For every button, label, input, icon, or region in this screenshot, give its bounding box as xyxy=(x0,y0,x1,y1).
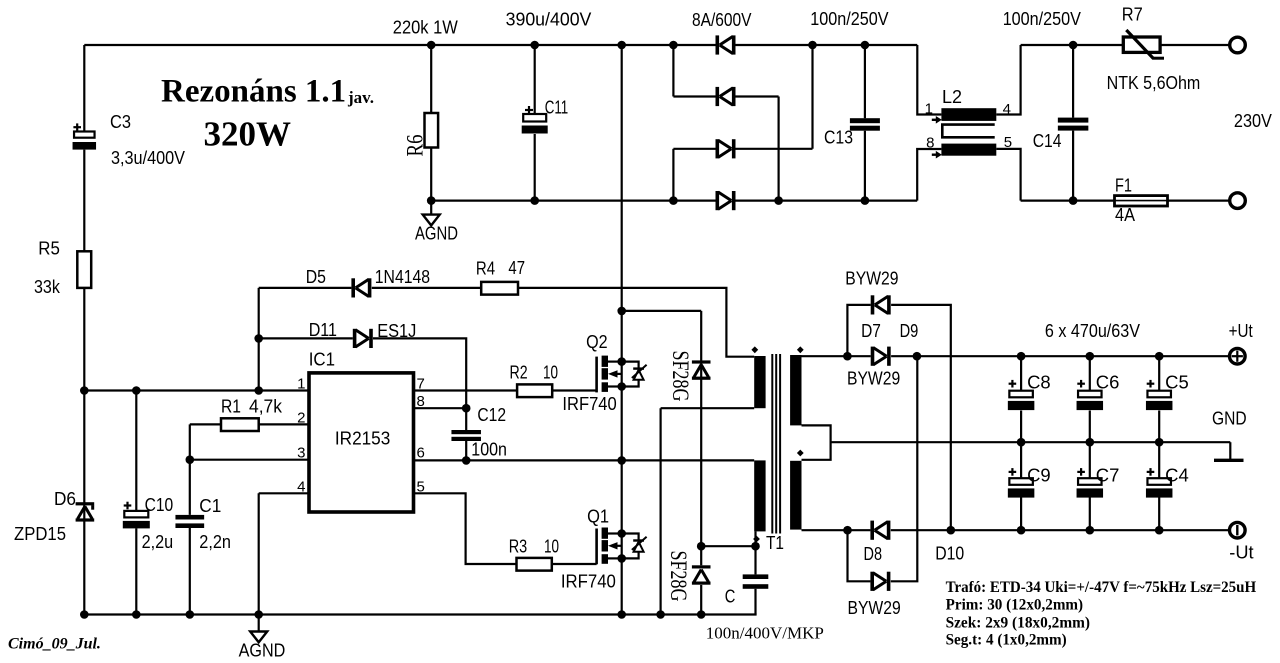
wire C11 bottom xyxy=(534,134,536,201)
transformer T1 secondary lower winding xyxy=(790,461,801,530)
svg-text:6 x 470u/63V: 6 x 470u/63V xyxy=(1045,321,1140,341)
terminal 230V neutral xyxy=(1230,193,1246,209)
svg-text:BYW29: BYW29 xyxy=(847,369,900,389)
svg-text:C10: C10 xyxy=(145,495,174,515)
wire top rail to C3 xyxy=(83,45,85,132)
svg-text:SF28G: SF28G xyxy=(668,351,693,402)
junction C1 / ground rail xyxy=(186,610,195,619)
wire SF28G vertical xyxy=(700,311,702,546)
svg-text:100n/400V/MKP: 100n/400V/MKP xyxy=(706,624,824,643)
wire T1 primary upper bottom row xyxy=(661,407,755,409)
wire SF28G bottom to ground rail xyxy=(700,585,702,615)
ground AGND near R6 xyxy=(423,201,440,226)
capacitor C4 xyxy=(1146,478,1173,497)
junction aux vertical / ground rail xyxy=(656,610,665,619)
wire main vertical to SF28G top xyxy=(622,310,702,312)
wire D5 to R4 xyxy=(372,287,481,289)
svg-text:2: 2 xyxy=(297,409,305,426)
wire C5 bottom xyxy=(1158,411,1160,443)
svg-text:R5: R5 xyxy=(38,239,60,259)
svg-text:F1: F1 xyxy=(1115,176,1132,196)
wire mid rail right of bridge diode D4 xyxy=(736,200,918,202)
svg-text:ZPD15: ZPD15 xyxy=(14,524,66,544)
wire pin 5 to R3 xyxy=(414,493,517,564)
bridge diode row 2 xyxy=(716,87,736,106)
diode SF28G bottom xyxy=(692,565,711,584)
wire top rail right of bridge diode D1 xyxy=(736,44,918,46)
fuse F1 xyxy=(1115,196,1168,206)
svg-text:C3: C3 xyxy=(110,112,131,132)
svg-text:10: 10 xyxy=(544,537,559,557)
junction right top rail / C14 xyxy=(1069,41,1078,50)
transformer T1 core xyxy=(772,354,780,534)
wire R6 top xyxy=(430,45,432,113)
svg-text:230V: 230V xyxy=(1234,111,1272,131)
junction top rail / R6 xyxy=(427,41,436,50)
junction top rail / C13 xyxy=(861,41,870,50)
inductor L2 winding top xyxy=(941,108,996,121)
wire C14 bottom xyxy=(1072,131,1074,201)
node Q2 drain junction xyxy=(617,357,626,366)
junction secondary bottom / D10 branch xyxy=(843,526,852,535)
wire D5/D11 left vertical xyxy=(258,288,260,391)
svg-text:NTK 5,6Ohm: NTK 5,6Ohm xyxy=(1107,73,1201,93)
junction Vcc row / C10 xyxy=(132,386,141,395)
svg-text:C14: C14 xyxy=(1033,131,1062,151)
wire pin 7 to R2 xyxy=(414,389,518,391)
junction -Ut rail / C9 xyxy=(1017,526,1026,535)
inductor L2 core xyxy=(942,125,994,138)
svg-text:4,7k: 4,7k xyxy=(249,397,283,417)
svg-text:220k 1W: 220k 1W xyxy=(393,18,458,38)
L2 polarity arrow pin 1 xyxy=(932,116,942,124)
svg-text:C1: C1 xyxy=(199,496,221,516)
wire bridge vertical to top rail xyxy=(811,45,813,149)
transformer T1 secondary upper winding xyxy=(790,355,801,425)
svg-text:Seg.t: 4 (1x0,2mm): Seg.t: 4 (1x0,2mm) xyxy=(946,631,1067,648)
svg-text:R1: R1 xyxy=(221,397,241,417)
wire C11 top xyxy=(534,45,536,114)
svg-text:R7: R7 xyxy=(1122,5,1143,25)
resistor R6 xyxy=(425,113,439,148)
op-amp IC1 IR2153 box xyxy=(309,373,414,512)
wire C8 bottom xyxy=(1020,411,1022,443)
junction pin8/D11/C12 xyxy=(462,404,471,413)
wire C7 top xyxy=(1089,442,1091,478)
svg-text:320W: 320W xyxy=(204,114,292,153)
wire R5 through D6 to bottom rail xyxy=(83,288,85,615)
svg-text:8: 8 xyxy=(926,135,934,152)
junction GND rail / C6 xyxy=(1086,438,1095,447)
wire bridge row 2 right xyxy=(736,95,779,97)
wire C8 top xyxy=(1020,356,1022,391)
capacitor C1 xyxy=(175,515,204,528)
wire C13 bottom xyxy=(864,131,866,201)
wire bridge row 3 right xyxy=(736,148,813,150)
diode D11 xyxy=(353,329,373,348)
junction pin3 row / C1 branch xyxy=(186,455,195,464)
junction main vertical / SF28G top branch xyxy=(617,307,626,316)
junction C10 / ground rail xyxy=(132,610,141,619)
svg-text:Trafó: ETD-34 Uki=+/-47V f=~7: Trafó: ETD-34 Uki=+/-47V f=~75kHz Lsz=25… xyxy=(946,579,1257,596)
terminal +Ut xyxy=(1230,348,1246,364)
node Q1 source junction xyxy=(617,554,626,563)
node Q1 drain junction xyxy=(617,529,626,538)
diode D8 BYW29 xyxy=(870,521,890,540)
junction -Ut rail / C7 xyxy=(1086,526,1095,535)
svg-text:BYW29: BYW29 xyxy=(845,269,898,289)
wire aux vertical to ground rail xyxy=(659,408,661,614)
wire GND rail down to ground bar xyxy=(1229,442,1231,459)
svg-text:100n: 100n xyxy=(471,440,507,460)
transformer T1 primary upper winding xyxy=(754,356,765,408)
wire C6 bottom xyxy=(1089,411,1091,443)
wire bridge row 2 left xyxy=(673,95,715,97)
wire right top rail to R7 xyxy=(1021,44,1123,46)
capacitor C7 xyxy=(1077,478,1104,497)
capacitor C resonant xyxy=(743,574,769,588)
wire D11 to C12 node xyxy=(373,338,466,408)
svg-text:IR2153: IR2153 xyxy=(335,429,390,449)
junction +Ut rail / D10 branch xyxy=(913,352,922,361)
wire pin 3 row xyxy=(190,459,309,461)
svg-text:C9: C9 xyxy=(1027,466,1051,486)
svg-text:4: 4 xyxy=(297,478,305,495)
zener diode D6 xyxy=(76,502,95,521)
svg-text:3: 3 xyxy=(297,445,305,462)
wire secondary top pin to D7 xyxy=(802,355,871,357)
T1 polarity mark secondary center xyxy=(797,450,804,457)
svg-text:T1: T1 xyxy=(766,533,784,553)
wire bridge row 3 left xyxy=(673,148,715,150)
thermistor R7 xyxy=(1123,30,1164,59)
wire C9 top xyxy=(1020,442,1022,478)
diode D9 BYW29 xyxy=(871,295,891,314)
junction -Ut rail / C4 xyxy=(1155,526,1164,535)
svg-text:100n/250V: 100n/250V xyxy=(810,9,888,29)
svg-text:C12: C12 xyxy=(477,405,506,425)
resistor R4 xyxy=(481,282,518,295)
wire pin 8 to C12 node xyxy=(414,407,467,409)
junction bridge vertical / mid rail xyxy=(774,196,783,205)
wire C4 top xyxy=(1158,442,1160,478)
wire R3 to Q1 gate xyxy=(552,563,597,565)
svg-text:D5: D5 xyxy=(306,267,326,287)
capacitor C11 xyxy=(522,114,548,134)
wire to SF28G bottom diode xyxy=(700,546,702,565)
svg-text:C5: C5 xyxy=(1165,372,1189,392)
junction pin 4 / ground rail xyxy=(254,610,263,619)
C10 plus mark xyxy=(124,502,132,510)
wire R1/C1 vertical xyxy=(189,424,191,515)
svg-text:D9: D9 xyxy=(900,321,919,341)
wire to D9 xyxy=(847,305,870,356)
svg-text:C11: C11 xyxy=(545,98,569,118)
L2 polarity arrow pin 8 xyxy=(932,151,942,159)
svg-text:D6: D6 xyxy=(54,489,76,509)
capacitor C5 xyxy=(1146,391,1173,410)
wire C9 bottom xyxy=(1020,497,1022,530)
junction GND rail / C8 xyxy=(1017,438,1026,447)
wire C12 bottom xyxy=(465,441,467,460)
wire main half-bridge vertical xyxy=(621,45,623,615)
junction pin 6 row / main vertical xyxy=(617,456,626,465)
svg-text:IC1: IC1 xyxy=(309,350,335,370)
capacitor C3 xyxy=(73,132,97,150)
diode D10 BYW29 xyxy=(870,572,890,591)
wire R1 to IC1 pin 2 xyxy=(259,423,309,425)
wire mid rail left of bridge diode D4 xyxy=(431,200,715,202)
svg-text:R2: R2 xyxy=(510,363,528,383)
svg-text:100n/250V: 100n/250V xyxy=(1003,9,1081,29)
resistor R3 xyxy=(517,558,552,571)
wire bridge left vertical lower xyxy=(672,149,674,201)
wire C12 top xyxy=(465,408,467,430)
svg-text:Cimó_09_Jul.: Cimó_09_Jul. xyxy=(8,636,101,653)
wire L2 pin 5 to right bottom rail xyxy=(996,149,1020,201)
bridge diode row 4 xyxy=(716,191,736,210)
junction top rail / C11 xyxy=(530,41,539,50)
T1 polarity mark primary bottom xyxy=(753,536,760,543)
svg-text:1: 1 xyxy=(925,101,933,118)
capacitor C6 xyxy=(1077,391,1104,410)
wire resonant cap bottom to ground rail xyxy=(754,589,756,615)
wire C1 bottom xyxy=(189,528,191,615)
wire C10 bottom xyxy=(135,528,137,614)
svg-text:6: 6 xyxy=(417,445,425,462)
svg-text:390u/400V: 390u/400V xyxy=(506,10,592,30)
wire pin 4 to ground rail xyxy=(258,493,260,614)
wire D11 row left xyxy=(259,337,353,339)
svg-text:R4: R4 xyxy=(476,259,495,279)
C9 plus mark xyxy=(1009,468,1017,476)
junction left vertical / Vcc row xyxy=(80,386,89,395)
diode SF28G top xyxy=(692,360,711,379)
junction GND rail / C5 xyxy=(1155,438,1164,447)
svg-text:D11: D11 xyxy=(309,320,337,340)
bridge diode row 1 xyxy=(716,35,736,54)
svg-text:C4: C4 xyxy=(1165,466,1189,486)
junction SF28G / T1 primary bottom xyxy=(697,542,706,551)
wire pin 4 row xyxy=(259,492,309,494)
junction SF28G / ground rail xyxy=(697,610,706,619)
wire D10 to +Ut rail xyxy=(891,356,918,581)
svg-text:R3: R3 xyxy=(509,537,528,557)
T1 polarity mark secondary top xyxy=(797,346,804,353)
C4 plus mark xyxy=(1147,468,1155,476)
svg-text:Rezonáns 1.1: Rezonáns 1.1 xyxy=(161,74,346,110)
svg-text:-Ut: -Ut xyxy=(1229,542,1253,562)
wire C6 top xyxy=(1089,356,1091,391)
capacitor C9 xyxy=(1008,478,1035,497)
C3 plus mark xyxy=(73,123,81,131)
svg-text:4A: 4A xyxy=(1115,205,1135,225)
terminal -Ut xyxy=(1230,522,1246,538)
svg-text:AGND: AGND xyxy=(415,224,458,244)
wire R7 to terminal xyxy=(1159,44,1229,46)
junction R6 / AGND / mid rail xyxy=(427,196,436,205)
wire Vcc row to IC1 pin 1 xyxy=(84,389,309,391)
svg-text:Q2: Q2 xyxy=(586,332,608,352)
junction secondary top / D9 branch xyxy=(843,352,852,361)
wire pin 6 row to T1 primary lower top xyxy=(414,459,755,461)
junction +Ut rail / C6 xyxy=(1086,352,1095,361)
T1 polarity mark primary top xyxy=(751,346,758,353)
junction +Ut rail / C8 xyxy=(1017,352,1026,361)
junction top rail / main vertical xyxy=(617,41,626,50)
wire right bottom rail to F1 xyxy=(1021,200,1115,202)
transistor Q2 IRF740 xyxy=(595,356,646,393)
svg-text:Prim: 30 (12x0,2mm): Prim: 30 (12x0,2mm) xyxy=(946,597,1084,614)
wire secondary bottom pin to D8 xyxy=(802,529,871,531)
junction main vertical / ground rail xyxy=(617,610,626,619)
wire top rail left of bridge diode D1 xyxy=(84,44,715,46)
junction C11 / mid rail xyxy=(530,196,539,205)
svg-text:IRF740: IRF740 xyxy=(562,394,616,414)
svg-text:C7: C7 xyxy=(1096,466,1120,486)
capacitor C10 xyxy=(123,511,150,529)
svg-text:10: 10 xyxy=(543,363,558,383)
wire top rail down to L2 pin 1 xyxy=(917,45,941,115)
svg-text:8A/600V: 8A/600V xyxy=(692,10,752,30)
wire R6 bottom xyxy=(430,148,432,201)
junction C12 / pin 6 row xyxy=(462,456,471,465)
wire bridge left vertical upper xyxy=(672,45,674,97)
wire F1 to terminal xyxy=(1168,200,1230,202)
wire D9 to -Ut rail xyxy=(891,305,951,530)
capacitor C12 xyxy=(451,430,481,441)
wire T1 primary bottom to pin row xyxy=(754,531,756,546)
wire D5 row left xyxy=(259,287,352,289)
svg-text:BYW29: BYW29 xyxy=(848,598,901,618)
wire to D10 xyxy=(848,530,871,581)
wire C10 top xyxy=(135,391,137,511)
svg-text:C13: C13 xyxy=(824,128,853,148)
svg-text:1N4148: 1N4148 xyxy=(375,267,430,287)
wire L2 pin 4 to right top rail xyxy=(996,45,1020,115)
junction ground rail / left vertical xyxy=(80,610,89,619)
svg-text:C: C xyxy=(725,587,736,607)
terminal 230V line xyxy=(1230,37,1246,53)
svg-text:GND: GND xyxy=(1212,408,1247,428)
diode D7 BYW29 xyxy=(871,347,891,366)
junction top rail / bridge left vertical xyxy=(669,41,678,50)
ground AGND main xyxy=(250,615,267,643)
svg-text:AGND: AGND xyxy=(239,641,286,661)
wire R1 left xyxy=(190,423,221,425)
junction C14 / right bottom rail xyxy=(1069,196,1078,205)
wire C14 top xyxy=(1072,45,1074,118)
inductor L2 winding bottom xyxy=(941,144,996,156)
wire C5 top xyxy=(1158,356,1160,391)
wire GND rail xyxy=(831,441,1231,443)
resistor R5 xyxy=(77,251,91,288)
wire mid rail up to L2 pin 8 xyxy=(917,149,941,201)
wire +Ut rail xyxy=(891,355,1229,357)
wire resonant cap top xyxy=(754,546,756,574)
wire C4 bottom xyxy=(1158,497,1160,530)
junction +Ut rail / C5 xyxy=(1155,352,1164,361)
svg-text:L2: L2 xyxy=(942,87,962,107)
svg-text:3,3u/400V: 3,3u/400V xyxy=(111,148,185,168)
svg-text:+Ut: +Ut xyxy=(1229,321,1253,341)
svg-text:IRF740: IRF740 xyxy=(561,572,616,592)
capacitor C14 xyxy=(1058,118,1089,131)
capacitor C13 xyxy=(850,118,880,131)
wire bridge vertical to mid rail xyxy=(777,97,779,201)
svg-text:R6: R6 xyxy=(403,135,428,157)
svg-text:Szek: 2x9 (18x0,2mm): Szek: 2x9 (18x0,2mm) xyxy=(946,614,1090,631)
capacitor C8 xyxy=(1008,391,1035,410)
svg-text:33k: 33k xyxy=(34,277,61,297)
svg-text:D8: D8 xyxy=(864,544,883,564)
C6 plus mark xyxy=(1077,380,1085,388)
junction D9 branch / -Ut rail xyxy=(947,526,956,535)
wire R2 to Q2 gate xyxy=(552,389,596,391)
C8 plus mark xyxy=(1009,380,1017,388)
diode D5 xyxy=(351,278,371,297)
transformer T1 primary lower winding xyxy=(754,460,765,531)
junction mid rail / bridge left vertical xyxy=(669,196,678,205)
wire C7 bottom xyxy=(1089,497,1091,530)
wire T1 secondary center tap bracket xyxy=(802,425,831,459)
svg-text:1: 1 xyxy=(297,376,305,393)
svg-text:D7: D7 xyxy=(861,321,881,341)
transistor Q1 IRF740 xyxy=(595,528,646,565)
junction C13 / mid rail xyxy=(861,196,870,205)
svg-text:C8: C8 xyxy=(1027,372,1051,392)
junction Vcc row / D5-D11 branch xyxy=(254,386,263,395)
junction T1 bottom / resonant cap C xyxy=(751,542,760,551)
bridge diode row 3 xyxy=(716,139,736,158)
C5 plus mark xyxy=(1147,380,1155,388)
resistor R1 xyxy=(221,418,259,431)
resistor R2 xyxy=(517,384,552,397)
svg-text:jav.: jav. xyxy=(347,88,374,107)
junction D11 row xyxy=(254,334,263,343)
C7 plus mark xyxy=(1077,468,1085,476)
wire C13 top xyxy=(864,45,866,118)
svg-text:SF28G: SF28G xyxy=(666,551,691,602)
junction bridge vertical / top rail xyxy=(808,41,817,50)
svg-text:2,2n: 2,2n xyxy=(199,532,231,552)
wire R4 to T1 primary top xyxy=(518,288,754,357)
wire ground rail xyxy=(84,613,756,615)
svg-text:47: 47 xyxy=(508,258,525,278)
ground GND bar xyxy=(1214,459,1244,462)
svg-text:Q1: Q1 xyxy=(587,507,609,527)
svg-text:2,2u: 2,2u xyxy=(142,532,174,552)
wire -Ut rail xyxy=(891,529,1229,531)
C11 plus mark xyxy=(525,106,533,114)
wire T1 bottom pin row xyxy=(701,545,755,547)
svg-text:D10: D10 xyxy=(935,544,964,564)
node Q2 source junction xyxy=(617,382,626,391)
wire C3 to R5 xyxy=(83,150,85,252)
svg-text:C6: C6 xyxy=(1096,372,1120,392)
